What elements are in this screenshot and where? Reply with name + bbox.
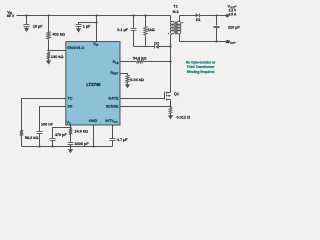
svg-text:Third Transformer: Third Transformer [187,65,216,69]
resistor 24.9k VC [69,129,72,135]
transformer core [175,22,177,35]
wire snubber cap bottom lead [133,31,135,47]
transformer secondary winding [177,21,181,25]
svg-text:LT3748: LT3748 [86,82,101,87]
wire D2 to drain node [159,46,171,48]
wire comp middle lead [70,135,72,143]
wire GND pin lead [93,125,95,147]
svg-text:0.1 µF: 0.1 µF [117,27,128,32]
ground main [70,147,72,150]
wire SS [40,107,66,132]
capacitor 3300pF VC [68,142,74,144]
wire 10uF lead [26,16,28,25]
terminal VOUT- [226,40,229,43]
svg-text:6.04 kΩ: 6.04 kΩ [130,77,144,82]
svg-text:SS: SS [67,104,73,109]
wire drain vertical [170,35,172,93]
transformer primary winding [170,21,174,25]
wire GATE [121,98,165,100]
junction VIN pin drop [95,14,97,16]
resistor 58.2k TC [20,130,23,136]
resistor 54.9k RFB [137,60,144,63]
svg-text:D1: D1 [196,17,202,22]
junction snubber resistor [144,14,146,16]
junction SS ground rail [38,145,40,147]
svg-text:GATE: GATE [108,96,119,101]
svg-text:3300 pF: 3300 pF [75,141,90,146]
wire TC bottom lead [21,137,23,147]
transistor Q1 [164,92,166,100]
wire snubber join [134,46,155,48]
transformer primary phase dot [168,33,170,35]
capacitor 1uF [76,24,82,26]
svg-text:D2: D2 [154,40,160,45]
junction input cap [25,14,27,16]
junction comp ground rail [69,145,71,147]
ground 130k [48,59,50,61]
svg-text:Winding Required: Winding Required [187,70,215,74]
capacitor 470pF VC [50,138,56,140]
svg-text:TC: TC [67,96,72,101]
wire 1uF branch [79,23,97,25]
ground RREF [127,83,129,85]
op-amp U1 LT3748 controller IC [66,42,120,125]
resistor 1k snubber [144,27,147,36]
transformer secondary phase dot [182,22,184,24]
junction sense [169,105,171,107]
wire VC lead [70,125,72,128]
wire 220uF bottom lead [216,28,218,42]
svg-text:SENSE: SENSE [106,104,119,109]
junction 470pF ground rail [51,145,53,147]
svg-text:24.9 kΩ: 24.9 kΩ [74,129,88,134]
svg-text:402 kΩ: 402 kΩ [52,31,65,36]
wire 3300pF bottom lead [70,145,72,147]
diode D1 output [196,13,200,17]
wire drain to Q1 [170,92,172,94]
wire SENSE [121,106,171,108]
wire secondary bottom lead [179,35,181,42]
wire INTVCC lead [112,125,114,139]
junction RFB drain [169,60,171,62]
svg-text:No Opto-Isolator or: No Opto-Isolator or [186,60,216,64]
svg-text:N:1: N:1 [173,9,180,14]
capacitor 10uF [24,24,30,26]
capacitor 220uF output [214,26,220,28]
wire EN/UVLO [49,50,66,52]
svg-text:4.7 µF: 4.7 µF [117,137,128,142]
terminal VOUT+ [226,14,229,17]
svg-text:1 µF: 1 µF [83,23,91,28]
node EN divider junction [47,49,49,51]
wire secondary to D1 [180,15,196,17]
wire primary top lead [170,16,172,22]
capacitor 0.1uF snubber [131,28,137,30]
svg-text:54.9 kΩ: 54.9 kΩ [133,56,147,61]
diode D2 snubber [154,45,156,49]
capacitor 4.7uF INTVCC [110,138,116,140]
junction 402k [47,14,49,16]
junction D2 drain [169,45,171,47]
svg-text:VOUT–: VOUT– [228,40,237,45]
wire source to sense [170,100,172,107]
svg-text:10 µF: 10 µF [33,23,43,28]
wire SS bottom lead [39,134,41,147]
wire 402k top lead [48,16,50,32]
svg-text:58.2 kΩ: 58.2 kΩ [25,135,39,140]
junction GND rail [92,145,94,147]
wire TC [22,99,66,131]
junction output cap bottom [215,40,217,42]
wire 470pF bottom lead [52,141,54,147]
wire 220uF top lead [216,16,218,26]
resistor 130k [47,52,50,59]
wire RFB [121,61,171,63]
svg-text:0.012 Ω: 0.012 Ω [177,115,191,120]
wire VC branch [53,128,71,139]
wire 4.7uF bottom lead [112,141,114,147]
wire VIN top rail [17,15,171,17]
svg-text:85 V: 85 V [7,14,15,18]
svg-text:EN/UVLO: EN/UVLO [67,45,84,50]
wire secondary top lead [179,16,181,22]
resistor 0.012 sense [169,108,172,114]
wire ground rail [22,146,113,148]
wire snubber cap lead [133,16,135,29]
resistor 6.04k RREF [126,75,129,82]
wire VIN pin drop [96,16,98,42]
wire D1 to output [200,15,227,17]
wire output return rail [180,41,227,43]
wire snubber resistor bottom lead [145,36,147,47]
svg-text:100 nF: 100 nF [41,121,54,126]
ground sense [170,114,172,116]
wire 402k to EN junction [48,40,50,51]
ground 1uF [78,27,80,29]
wire RREF [121,74,128,76]
junction 1uF branch [95,21,97,23]
svg-text:1kΩ: 1kΩ [147,27,154,32]
wire snubber resistor top lead [145,16,147,27]
node VC junction [69,126,71,128]
svg-text:GND: GND [89,118,98,123]
svg-text:470 pF: 470 pF [55,132,68,137]
resistor 402k [47,32,50,39]
svg-text:220 µF: 220 µF [228,24,240,29]
svg-text:3.5 A: 3.5 A [229,12,237,16]
svg-text:130 kΩ: 130 kΩ [51,54,64,59]
ground 10uF [26,27,28,28]
svg-text:Q1: Q1 [174,91,180,96]
junction snubber cap [132,14,134,16]
junction output cap top [215,14,217,16]
capacitor 100nF SS [37,131,43,133]
